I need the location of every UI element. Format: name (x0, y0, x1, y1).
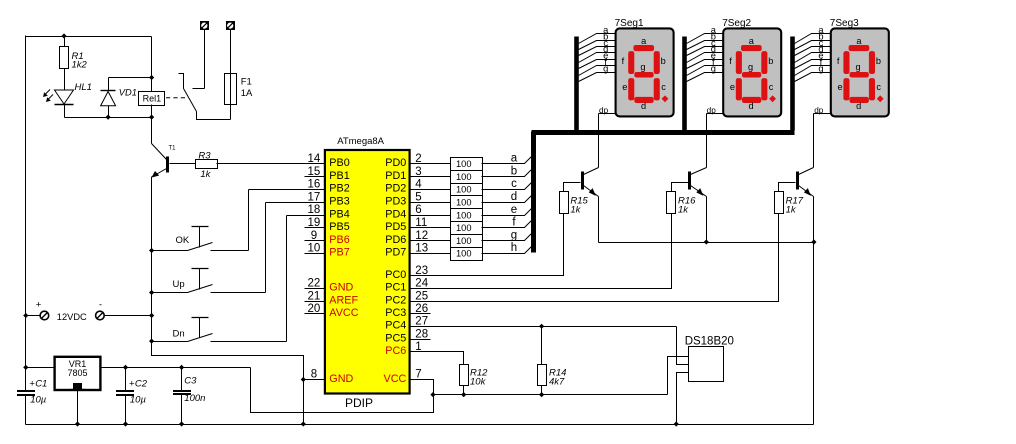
wire 5V rail (434, 394, 668, 396)
svg-text:b: b (511, 165, 517, 177)
svg-text:e: e (511, 204, 517, 216)
svg-text:10µ: 10µ (30, 394, 47, 405)
wire common emitter rail (599, 242, 814, 244)
label R1 value (72, 51, 88, 71)
svg-text:d: d (511, 191, 517, 203)
svg-text:e: e (622, 82, 627, 92)
svg-text:10µ: 10µ (130, 394, 147, 405)
svg-text:h: h (511, 242, 517, 254)
wire segment h to bus (482, 247, 532, 254)
svg-text:10k: 10k (470, 377, 487, 388)
svg-text:22: 22 (308, 278, 321, 290)
svg-text:PC3: PC3 (385, 307, 406, 319)
wire DS18B20 GND (677, 373, 689, 425)
terminal X2 (227, 22, 235, 30)
wire segment b to bus (482, 170, 532, 177)
node junction R14 top (539, 324, 544, 329)
svg-text:PC2: PC2 (385, 294, 406, 306)
relay contact arm (184, 89, 197, 112)
svg-text:f: f (622, 56, 625, 66)
node junction relay-coil bottom (149, 115, 154, 120)
wire dp stub (599, 113, 616, 115)
svg-text:ATmega8A: ATmega8A (337, 136, 384, 147)
resistor R17 (775, 192, 784, 214)
wire contact bottom to fuse (197, 112, 231, 120)
svg-text:PB0: PB0 (329, 157, 349, 169)
svg-text:g: g (748, 62, 753, 72)
svg-text:1k: 1k (786, 204, 797, 215)
svg-text:3: 3 (415, 166, 421, 178)
wire T1 emitter rail (151, 177, 153, 342)
pin 22 GND stub (305, 288, 325, 290)
svg-text:4k7: 4k7 (549, 377, 565, 388)
wire LED/diode bottom rail (65, 117, 152, 119)
svg-text:7: 7 (415, 369, 421, 381)
relay coil Rel1 (139, 92, 165, 106)
wire 7Seg2 pin e (687, 60, 724, 69)
pin 6 PD4 stub (410, 215, 431, 217)
bus vertical fan-in (531, 132, 536, 253)
svg-text:100: 100 (456, 223, 472, 233)
wire 7Seg2 pin d (687, 53, 724, 63)
svg-text:13: 13 (415, 243, 428, 255)
svg-text:OK: OK (176, 235, 190, 246)
bus horizontal (532, 130, 795, 135)
svg-text:g: g (603, 63, 608, 73)
wire Q2 base (672, 183, 689, 192)
svg-text:11: 11 (415, 217, 427, 229)
svg-text:1: 1 (415, 341, 421, 353)
svg-text:100: 100 (456, 198, 472, 208)
pin 9 PB6 stub (305, 240, 325, 242)
wire R15 to PC0 (410, 214, 564, 276)
wire PD4 to resistor (431, 215, 451, 217)
switch OK (152, 190, 325, 251)
wire 7Seg3 pin g (795, 73, 831, 82)
wire R3 to PB0 pin14 (217, 163, 325, 165)
svg-text:21: 21 (308, 290, 321, 302)
svg-text:18: 18 (308, 204, 321, 216)
svg-text:1k2: 1k2 (72, 60, 88, 71)
wire 5V output row (101, 367, 251, 369)
wire PD0 to resistor (431, 163, 451, 165)
wire 7Seg1 pin g (579, 73, 616, 82)
node junction Q2 emitter (704, 239, 709, 244)
svg-text:F1: F1 (241, 77, 252, 88)
svg-text:15: 15 (308, 166, 321, 178)
wire segment c to bus (482, 183, 532, 190)
transistor Q1 (583, 168, 599, 197)
node junction +12V / VR1 input (23, 365, 28, 370)
node junction relay-coil top (149, 75, 154, 80)
pin 3 PD1 stub (410, 176, 431, 178)
pin 23 PC0 stub (410, 275, 431, 277)
wire R14 bottom (541, 386, 543, 395)
wire dp stub (814, 113, 831, 115)
svg-text:100: 100 (456, 236, 472, 246)
capacitor C2 (116, 368, 134, 425)
svg-text:HL1: HL1 (75, 82, 92, 93)
svg-text:7Seg3: 7Seg3 (830, 18, 859, 29)
wire Q3 base (779, 183, 796, 192)
resistor R1 (60, 37, 69, 91)
resistor 100 #4 (451, 196, 483, 209)
pin 17 PB3 stub (305, 202, 325, 204)
svg-text:PC5: PC5 (385, 332, 406, 344)
wire 7Seg3 pin b (795, 41, 831, 50)
svg-text:+: + (36, 300, 42, 311)
regulator VR1 7805 (55, 357, 101, 390)
svg-text:PB7: PB7 (329, 247, 349, 259)
node junction C3 top (179, 365, 184, 370)
wire 7Seg2 pin c (687, 47, 724, 56)
node junction Dn left (149, 339, 154, 344)
svg-text:7805: 7805 (67, 368, 87, 378)
transistor Q2 (690, 168, 707, 197)
label C2 value (129, 378, 148, 405)
wire contact to terminal X1 (204, 30, 206, 89)
pin 16 PB2 stub (305, 189, 325, 191)
svg-text:1k: 1k (200, 169, 211, 180)
resistor 100 #7 (451, 235, 483, 248)
resistor 100 #3 (451, 184, 483, 197)
svg-text:PC4: PC4 (385, 320, 406, 332)
svg-text:T1: T1 (169, 146, 177, 152)
resistor 100 #2 (451, 171, 483, 184)
svg-text:-: - (99, 300, 102, 311)
wire GND pin8 stub (304, 379, 325, 381)
sensor DS18B20 body (689, 347, 724, 382)
svg-text:1k: 1k (570, 204, 581, 215)
pin 14 PB0 stub (305, 163, 325, 165)
pin 1 PC6 stub (410, 351, 431, 353)
wire VCC pin7 (410, 380, 434, 395)
svg-text:a: a (749, 36, 755, 46)
pin 19 PB5 stub (305, 227, 325, 229)
svg-text:PD2: PD2 (385, 183, 406, 195)
resistor R3 (196, 160, 218, 169)
svg-text:b: b (876, 56, 881, 66)
bus riser 7Seg2 (682, 37, 687, 131)
transistor T1 (151, 144, 167, 178)
fuse F1 (225, 74, 237, 105)
svg-text:PD5: PD5 (385, 221, 406, 233)
wire 7Seg3 pin e (795, 60, 831, 69)
wire 7Seg1 pin d (579, 53, 616, 63)
svg-text:8: 8 (311, 369, 317, 381)
svg-text:a: a (511, 153, 518, 165)
svg-text:VCC: VCC (384, 373, 407, 385)
svg-text:g: g (711, 63, 716, 73)
wire 7Seg3 pin d (795, 53, 831, 63)
svg-text:DS18B20: DS18B20 (685, 335, 734, 347)
svg-text:c: c (876, 82, 881, 92)
display 7Seg1 (616, 28, 674, 116)
svg-text:g: g (818, 63, 823, 73)
resistor 100 #8 (451, 248, 483, 261)
svg-text:AREF: AREF (329, 294, 358, 306)
label R3 value (198, 150, 211, 180)
label R14 4k7 (549, 367, 566, 387)
relay contact fixed bar (193, 88, 205, 90)
wire 7Seg1 pin f (579, 66, 616, 76)
node junction OK left (149, 248, 154, 253)
svg-text:d: d (641, 101, 646, 111)
svg-text:2: 2 (415, 153, 421, 165)
wire Q1 emitter (598, 197, 600, 243)
svg-text:9: 9 (311, 230, 317, 242)
switch Up (152, 203, 325, 293)
svg-text:b: b (768, 56, 773, 66)
wire PD3 to resistor (431, 202, 451, 204)
capacitor C1 (17, 391, 35, 425)
svg-text:g: g (856, 62, 861, 72)
diode VD1 (101, 78, 116, 118)
wire PD2 to resistor (431, 189, 451, 191)
svg-text:b: b (661, 56, 666, 66)
svg-text:100n: 100n (184, 393, 205, 404)
wire segment f to bus (482, 221, 532, 228)
label C3 value (184, 375, 205, 404)
wire VR1 input (26, 367, 55, 369)
wire PC6 to R12 (431, 352, 464, 365)
svg-text:PB5: PB5 (329, 221, 349, 233)
wire VD1 cathode to relay node (109, 77, 152, 79)
wire right edge to ground (813, 243, 815, 425)
wire PC4 to DS18B20 DQ (431, 326, 677, 328)
svg-text:24: 24 (415, 278, 428, 290)
wire 7Seg1 pin e (579, 60, 616, 69)
node junction VD1 anode (106, 115, 111, 120)
svg-text:28: 28 (415, 328, 428, 340)
svg-text:c: c (661, 82, 666, 92)
svg-text:PD3: PD3 (385, 196, 406, 208)
resistor 100 #6 (451, 222, 483, 235)
svg-text:20: 20 (308, 303, 321, 315)
pin 20 AVCC stub (305, 313, 325, 315)
pin 15 PB1 stub (305, 176, 325, 178)
pin 2 PD0 stub (410, 163, 431, 165)
wire 7Seg1 pin b (579, 41, 616, 50)
wire 5V to DS18B20 VDD (668, 357, 689, 395)
wire Q3 emitter (813, 197, 815, 243)
node junction VR1 gnd (75, 421, 80, 426)
node junction VCC/5V rail (430, 392, 435, 397)
wire Q1 base (564, 183, 581, 192)
svg-text:7Seg2: 7Seg2 (722, 18, 751, 29)
terminal X1 (201, 22, 209, 30)
transistor Q3 (798, 168, 814, 197)
pin 8 GND stub (305, 379, 325, 381)
wire relay vertical lower (151, 105, 153, 144)
svg-text:PB2: PB2 (329, 183, 349, 195)
svg-text:7Seg1: 7Seg1 (615, 18, 644, 29)
wire T1 base to R3 (170, 163, 196, 165)
svg-text:GND: GND (329, 373, 353, 385)
resistor R12 (460, 365, 469, 386)
pin 18 PB4 stub (305, 215, 325, 217)
svg-text:14: 14 (308, 153, 321, 165)
pin 21 AREF stub (305, 301, 325, 303)
wire PD5 to resistor (431, 227, 451, 229)
svg-text:PC0: PC0 (385, 269, 406, 281)
svg-text:1k: 1k (678, 204, 689, 215)
svg-text:PC1: PC1 (385, 282, 406, 294)
wire 7Seg2 pin a (687, 34, 724, 44)
bus riser 7Seg1 (574, 37, 579, 131)
svg-text:a: a (641, 36, 647, 46)
switch Dn (152, 216, 325, 342)
svg-text:12VDC: 12VDC (57, 312, 87, 322)
svg-text:VD1: VD1 (119, 88, 137, 98)
wire 5V under-chip route (251, 368, 434, 413)
bus riser 7Seg3 (790, 37, 795, 131)
wire R16 to PC1 (410, 214, 672, 289)
display 7Seg2 (723, 28, 781, 116)
wire fuse vertical (230, 30, 232, 120)
svg-text:AVCC: AVCC (329, 307, 358, 319)
label C1 value (29, 378, 47, 405)
resistor R16 (667, 192, 676, 214)
wire segment e to bus (482, 209, 532, 216)
svg-text:C2: C2 (135, 378, 148, 389)
wire plus terminal (26, 315, 41, 317)
node junction Up left (149, 290, 154, 295)
svg-text:25: 25 (415, 290, 428, 302)
wire segment d to bus (482, 196, 532, 203)
svg-text:26: 26 (415, 303, 428, 315)
svg-text:PB4: PB4 (329, 208, 349, 220)
wire DQ drop (677, 327, 689, 365)
svg-text:100: 100 (456, 210, 472, 220)
svg-text:Up: Up (173, 279, 185, 290)
wire dp to Q3 collector (813, 114, 815, 168)
pin 24 PC1 stub (410, 288, 431, 290)
node junction C2 bottom (123, 421, 128, 426)
resistor 100 #1 (451, 158, 483, 171)
pin 27 PC4 stub (410, 326, 431, 328)
node junction R14 bottom (539, 392, 544, 397)
label R12 10k (470, 367, 488, 387)
wire ground bottom rail (26, 424, 814, 426)
wire PD6 to resistor (431, 240, 451, 242)
svg-text:PB3: PB3 (329, 196, 349, 208)
display 7Seg3 (831, 28, 889, 116)
wire 7Seg3 pin a (795, 34, 831, 44)
wire relay vertical upper (151, 37, 153, 92)
svg-text:PDIP: PDIP (345, 396, 373, 410)
node junction R12 bottom (461, 392, 466, 397)
svg-text:16: 16 (308, 179, 321, 191)
svg-text:PD6: PD6 (385, 234, 406, 246)
terminal - (12VDC) (96, 311, 105, 320)
wire 7Seg2 pin f (687, 66, 724, 76)
resistor 100 #5 (451, 209, 483, 222)
node junction GND pin8 (301, 377, 306, 382)
svg-text:PB1: PB1 (329, 170, 349, 182)
node junction ground rail left-center (301, 421, 306, 426)
svg-text:g: g (640, 62, 645, 72)
svg-text:d: d (856, 101, 861, 111)
wire 7Seg2 pin g (687, 73, 724, 82)
label VR1 7805 (67, 359, 87, 378)
node junction DS18B20 gnd (674, 421, 679, 426)
svg-text:Rel1: Rel1 (143, 94, 162, 104)
svg-text:R3: R3 (198, 150, 211, 161)
LED HL1 (43, 90, 74, 118)
wire 7Seg1 pin a (579, 34, 616, 44)
wire switch-common to chip GND (152, 342, 304, 425)
node junction +12V terminal (23, 313, 28, 318)
resistor R15 (560, 192, 569, 214)
svg-text:e: e (730, 82, 735, 92)
svg-text:4: 4 (415, 179, 422, 191)
wire minus terminal to ground rail (105, 315, 152, 317)
wire dp to Q2 collector (706, 114, 708, 168)
pin 28 PC5 stub (410, 339, 431, 341)
wire R12 bottom (463, 386, 465, 395)
svg-text:100: 100 (456, 249, 472, 259)
svg-text:PD4: PD4 (385, 208, 406, 220)
node junction C3 bottom (179, 421, 184, 426)
capacitor C3 (173, 368, 191, 425)
wire R14 top lead (541, 327, 543, 365)
svg-text:17: 17 (308, 191, 321, 203)
svg-text:PD1: PD1 (385, 170, 406, 182)
wire segment a to bus (482, 157, 532, 164)
IC U1 ATmega8A body (325, 150, 410, 394)
wire PD1 to resistor (431, 176, 451, 178)
terminal + (12VDC) (40, 311, 49, 320)
svg-text:12: 12 (415, 230, 428, 242)
pin 25 PC2 stub (410, 301, 431, 303)
svg-text:6: 6 (415, 204, 421, 216)
dashed mechanical link (166, 97, 186, 99)
svg-text:C1: C1 (35, 378, 47, 389)
node junction R1/top-rail (61, 33, 66, 38)
svg-text:Dn: Dn (173, 329, 185, 340)
svg-text:5: 5 (415, 191, 421, 203)
relay contact pivot (179, 74, 184, 89)
svg-text:PD0: PD0 (385, 157, 406, 169)
wire dp stub (707, 113, 724, 115)
wire 7Seg2 pin b (687, 41, 724, 50)
wire dp to Q1 collector (598, 114, 600, 168)
wire +12V left rail (25, 36, 27, 391)
pin 7 VCC stub (410, 379, 431, 381)
svg-text:19: 19 (308, 217, 321, 229)
pin 5 PD3 stub (410, 202, 431, 204)
pin 4 PD2 stub (410, 189, 431, 191)
svg-text:PD7: PD7 (385, 247, 406, 259)
wire Q2 emitter (706, 197, 708, 243)
svg-text:d: d (749, 101, 754, 111)
wire 7Seg3 pin f (795, 66, 831, 76)
svg-text:PB6: PB6 (329, 234, 349, 246)
svg-text:f: f (837, 56, 840, 66)
svg-text:c: c (769, 82, 774, 92)
svg-text:GND: GND (329, 282, 353, 294)
pin 10 PB7 stub (305, 253, 325, 255)
wire 7Seg1 pin c (579, 47, 616, 56)
svg-text:100: 100 (456, 185, 472, 195)
wire 7Seg3 pin c (795, 47, 831, 56)
pin 26 PC3 stub (410, 313, 431, 315)
label F1 1A (241, 77, 253, 100)
svg-text:1A: 1A (241, 88, 253, 99)
svg-text:g: g (511, 229, 517, 241)
pin 13 PD7 stub (410, 253, 431, 255)
